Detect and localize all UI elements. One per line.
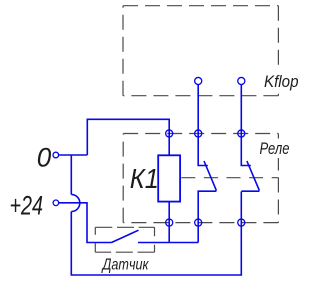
wire bottom bus from hop to contact K1.2 bottom lead [71,192,241,276]
KFLOP controller dashed enclosure [123,6,278,96]
relay coil K1 body [158,155,180,201]
relay contact K1.2 bottom stub [241,190,259,192]
hop-over crossing of +24 wire [71,195,80,212]
wire coil bottom to node [168,202,170,243]
svg-text:Датчик: Датчик [101,257,149,274]
relay bottom terminal coil [166,219,173,226]
wire +24 terminal to sensor switch [59,203,112,243]
terminal +24 [53,200,59,206]
label Kflop [262,70,300,93]
terminal 0 [53,152,59,158]
wire riser up and over to K1 coil top [87,119,169,155]
relay top terminal contact 2 [238,130,245,137]
relay dashed enclosure [123,134,278,223]
relay contact K1.1 bottom lead and stub [198,191,216,242]
relay bottom terminal contact 2 [238,219,245,226]
mechanical linkage dashed line from coil K1 to contacts [181,177,278,179]
wire sensor switch output to coil-bottom node [138,242,198,244]
svg-text:0: 0 [37,142,52,172]
sensor dashed enclosure [95,227,154,252]
relay top terminal coil [166,130,173,137]
relay top terminal contact 1 [195,130,202,137]
KFLOP output terminal 2 [238,77,245,84]
svg-text:+24: +24 [10,190,44,220]
sensor switch blade [112,230,139,242]
KFLOP output terminal 1 [195,77,202,84]
relay contact K1.1 blade [204,161,216,191]
relay contact K1.1 top lead and stub [198,85,208,166]
relay contact K1.2 blade [247,161,260,191]
svg-text:Реле: Реле [260,140,290,158]
svg-text:К1: К1 [130,163,159,194]
wire 0V branch down from 0 wire [70,155,72,195]
relay bottom terminal contact 1 [195,219,202,226]
label Реле [257,139,293,159]
wire 0 terminal to riser [59,154,88,156]
svg-text:Kflop: Kflop [264,73,299,91]
relay contact K1.2 top lead and stub [241,85,251,166]
